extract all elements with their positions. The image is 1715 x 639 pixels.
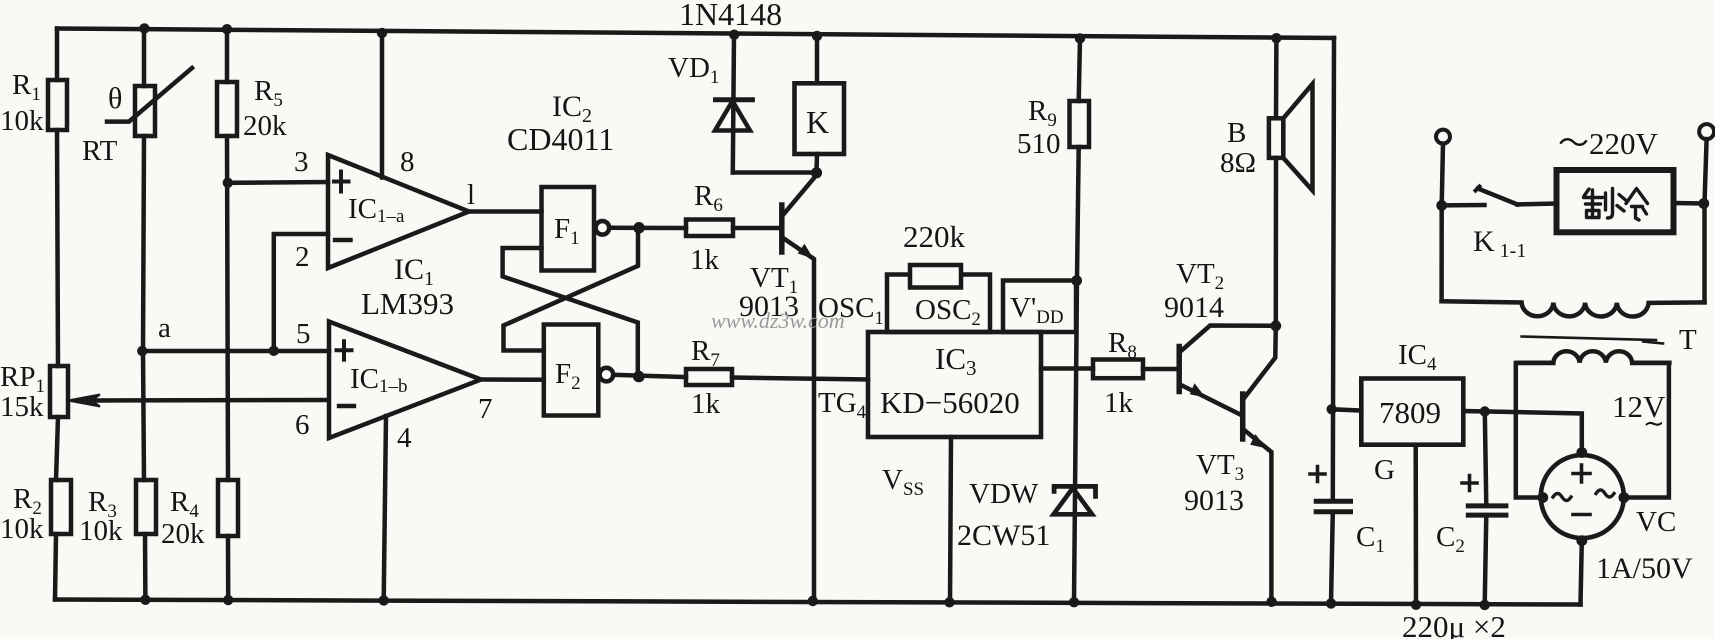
svg-text:www.dz3w.com: www.dz3w.com	[711, 308, 845, 333]
node junction C2 at ground	[1480, 600, 1490, 610]
svg-text:9014: 9014	[1164, 291, 1224, 324]
transistor VT1	[779, 205, 785, 252]
svg-text:1N4148: 1N4148	[679, 0, 782, 32]
capacitor C1	[1316, 499, 1350, 504]
wire F1 output to junction	[609, 226, 686, 231]
wire Vss to ground	[950, 437, 951, 603]
wire bridge AC right to secondary	[1624, 363, 1669, 498]
node junction G at ground	[1411, 600, 1421, 610]
node junction ground at pin4	[379, 595, 389, 605]
svg-text:2: 2	[295, 241, 310, 273]
wire F1 lower input feedback from F2 output	[503, 248, 638, 377]
node junction pin2-pin5	[269, 346, 279, 356]
wire primary loop left	[1439, 205, 1444, 301]
wire R7 to IC3 TG4	[732, 378, 868, 380]
wire F2 output to R7	[613, 375, 686, 377]
node junction C2 top	[1480, 406, 1490, 416]
wire R6 to VT1 base	[733, 226, 780, 231]
svg-text:1k: 1k	[691, 388, 721, 420]
IC3 KD-56020	[868, 332, 1041, 437]
wire pin4 to ground	[384, 416, 386, 600]
svg-text:2CW51: 2CW51	[957, 519, 1050, 552]
svg-text:θ: θ	[108, 82, 122, 115]
wire bridge bottom to ground rail	[1581, 541, 1582, 605]
potentiometer RP1	[50, 366, 68, 417]
wire F2 upper input feedback from F1 output	[504, 228, 639, 350]
node a junction	[137, 346, 147, 356]
node junction top rail at pin8	[377, 28, 387, 38]
op-amp IC1-a	[328, 155, 469, 268]
op-amp IC1-b	[329, 322, 481, 439]
svg-text:7: 7	[478, 393, 493, 425]
capacitor C2	[1485, 412, 1487, 506]
load label leng (cooling) char 2	[1617, 189, 1648, 221]
wire left vertical (R1/RP1/R2 branch)	[55, 29, 60, 81]
svg-text:G: G	[1374, 454, 1395, 486]
svg-text:VC: VC	[1636, 506, 1676, 538]
transistor VT2	[1176, 347, 1182, 392]
node junction top rail at R5	[222, 24, 232, 34]
svg-text:10k: 10k	[0, 513, 44, 545]
zener diode VDW	[1054, 486, 1095, 496]
resistor R6	[686, 220, 733, 237]
terminal right AC 220V	[1699, 124, 1714, 139]
wire R5/R4 branch vertical	[225, 29, 230, 82]
svg-text:15k: 15k	[0, 391, 44, 423]
svg-text:1k: 1k	[1104, 387, 1134, 419]
resistor R1	[48, 80, 67, 130]
resistor R2	[51, 480, 71, 534]
node junction VT3 emitter at ground	[1266, 597, 1276, 607]
switch K1-1	[1442, 203, 1485, 208]
NAND gate F2	[544, 325, 599, 416]
svg-text:10k: 10k	[0, 105, 44, 137]
svg-text:∼: ∼	[1643, 409, 1665, 438]
wire to 7809 input	[1332, 409, 1362, 410]
resistor 220k	[910, 265, 961, 288]
svg-text:5: 5	[296, 318, 311, 350]
svg-text:220k: 220k	[903, 219, 966, 254]
svg-text:220μ ×2: 220μ ×2	[1402, 609, 1506, 639]
svg-text:7809: 7809	[1379, 395, 1441, 430]
node junction top rail at R9	[1075, 33, 1085, 43]
speaker B	[1274, 38, 1279, 118]
node junction VT2 collector	[1270, 320, 1281, 331]
node junction V'DD	[1071, 275, 1082, 286]
wire IC1-b output pin7	[481, 377, 544, 382]
resistor R7	[686, 369, 732, 385]
svg-text:～220V: ～220V	[1558, 126, 1658, 161]
svg-text:KD−56020: KD−56020	[880, 385, 1020, 420]
node junction top rail at RT	[139, 23, 149, 33]
node junction 7809 input	[1327, 404, 1337, 414]
wire node a to pin5	[142, 349, 329, 354]
relay K	[815, 36, 820, 83]
wire bottom ground rail	[55, 600, 1581, 605]
svg-text:CD4011: CD4011	[507, 121, 614, 157]
svg-text:a: a	[158, 312, 171, 344]
svg-text:6: 6	[295, 409, 310, 441]
load box cooling glyphs	[1584, 189, 1648, 221]
node junction top rail at K	[812, 31, 822, 41]
bridge rectifier VC	[1541, 455, 1624, 538]
node junction VDW at ground	[1069, 597, 1079, 607]
svg-text:10k: 10k	[79, 515, 123, 547]
node junction VT1 emitter at ground	[808, 596, 818, 606]
node junction Vss at ground	[944, 597, 954, 607]
node junction K bottom / VD1 / VT1 collector	[811, 167, 822, 178]
load label zhi (cooling) char 1	[1584, 189, 1613, 219]
wire RT branch vertical	[142, 28, 147, 86]
regulator IC4 7809	[1361, 379, 1463, 445]
resistor R4	[218, 480, 238, 536]
wire primary loop right	[1702, 204, 1707, 303]
node junction right terminal	[1698, 198, 1709, 209]
wire right vertical from top rail to C1 and ground	[1333, 38, 1334, 501]
inductor transformer primary	[1442, 301, 1705, 316]
svg-text:l: l	[467, 179, 475, 211]
svg-text:9013: 9013	[1184, 484, 1244, 517]
svg-text:4: 4	[397, 422, 412, 454]
wire R9 branch vertical	[1079, 38, 1080, 101]
wire pin3 input	[228, 180, 328, 185]
node junction switch left	[1436, 200, 1447, 211]
svg-text:1A/50V: 1A/50V	[1596, 552, 1693, 585]
svg-text:B: B	[1227, 117, 1246, 149]
svg-text:510: 510	[1017, 128, 1061, 160]
transformer core T	[1522, 337, 1656, 341]
svg-text:OSC2: OSC2	[915, 294, 981, 330]
wire R8 to VT2 base	[1143, 367, 1176, 372]
wire bridge AC left to secondary	[1516, 363, 1554, 498]
svg-text:8: 8	[400, 146, 415, 178]
resistor R9	[1070, 101, 1090, 147]
NAND gate F1	[542, 187, 595, 271]
wire top supply rail	[57, 29, 1334, 39]
node junction F1 output	[633, 222, 645, 234]
wire 7809 output to bridge plus	[1463, 411, 1581, 453]
pin box V'DD	[1003, 281, 1076, 333]
svg-text:20k: 20k	[161, 518, 205, 550]
svg-text:VDW: VDW	[969, 478, 1039, 510]
resistor R3	[136, 480, 156, 534]
svg-text:K: K	[806, 104, 829, 140]
wire cooling box right to terminal	[1674, 201, 1704, 206]
wire pin2 input	[274, 234, 328, 351]
wire 7809 ground G	[1413, 445, 1418, 605]
transistor VT3	[1240, 394, 1246, 439]
node junction ground at R3	[140, 595, 150, 605]
wire left terminal down	[1442, 144, 1443, 206]
inductor transformer secondary 12V	[1517, 351, 1669, 362]
node junction pin3 / R5-R4	[223, 178, 233, 188]
wire RP1 wiper to pin6 line	[95, 398, 328, 403]
svg-text:20k: 20k	[243, 110, 287, 142]
node junction ground at R4	[223, 595, 233, 605]
svg-text:RT: RT	[82, 135, 118, 167]
svg-text:3: 3	[294, 146, 309, 178]
diode VD1	[733, 35, 734, 173]
resistor R8	[1093, 360, 1143, 379]
svg-text:8Ω: 8Ω	[1220, 147, 1256, 179]
load box cooling	[1557, 170, 1674, 232]
resistor R5	[217, 82, 237, 136]
svg-text:LM393: LM393	[361, 286, 454, 321]
node junction top rail at speaker	[1271, 33, 1281, 43]
node junction C1 at ground	[1326, 598, 1336, 608]
wire IC1-a output pin1	[469, 209, 542, 214]
node junction F2 output	[633, 371, 645, 383]
pin box OSC2	[887, 275, 990, 333]
wire IC3 output to R8	[1041, 366, 1093, 371]
wire pin8 from top rail	[380, 33, 385, 178]
svg-text:T: T	[1679, 324, 1697, 356]
terminal left AC 220V	[1436, 130, 1450, 144]
node junction top rail at VD1	[729, 30, 739, 40]
svg-text:1k: 1k	[690, 244, 720, 276]
thermistor RT	[135, 86, 155, 136]
